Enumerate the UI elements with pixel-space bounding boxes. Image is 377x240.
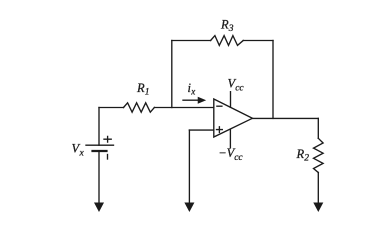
wire non-inverting input horizontal bbox=[189, 129, 213, 131]
battery polarity minus tick bbox=[107, 155, 109, 160]
wire top feedback right segment bbox=[243, 40, 273, 42]
svg-text:1: 1 bbox=[145, 88, 150, 98]
op-amp U1 bbox=[214, 99, 253, 137]
voltage source Vx battery bottom plate bbox=[93, 150, 107, 152]
wire top feedback left segment bbox=[172, 40, 211, 42]
label R3 bbox=[220, 18, 234, 35]
op-amp negative supply stub bbox=[229, 129, 231, 148]
wire from source corner to R1 bbox=[99, 107, 124, 109]
resistor R3 bbox=[211, 36, 244, 46]
wire non-inverting input vertical bbox=[188, 130, 190, 202]
svg-text:−V: −V bbox=[218, 146, 235, 160]
wire source bottom vertical bbox=[98, 151, 100, 203]
label Vcc (positive supply) bbox=[228, 77, 245, 94]
label R2 bbox=[296, 147, 310, 164]
svg-text:R: R bbox=[296, 147, 305, 161]
svg-text:x: x bbox=[190, 87, 195, 97]
ground arrow below non-inverting input bbox=[186, 203, 194, 210]
resistor R1 bbox=[124, 103, 155, 112]
resistor R2 bbox=[314, 138, 324, 172]
svg-text:3: 3 bbox=[228, 24, 234, 34]
label R1 bbox=[136, 81, 150, 98]
label -Vcc (negative supply) bbox=[218, 146, 243, 163]
svg-text:cc: cc bbox=[234, 153, 243, 163]
svg-text:2: 2 bbox=[304, 154, 309, 164]
svg-text:x: x bbox=[79, 149, 85, 159]
wire from R1 to op-amp inverting input bbox=[154, 107, 213, 109]
wire feedback right vertical bbox=[272, 41, 274, 119]
svg-text:R: R bbox=[136, 81, 145, 95]
wire R2 bottom vertical bbox=[317, 173, 319, 203]
op-amp non-inverting input plus sign bbox=[217, 127, 223, 133]
wire R2 top vertical bbox=[317, 118, 319, 138]
wire source top vertical bbox=[98, 108, 100, 146]
label i_x (current) bbox=[188, 81, 196, 97]
ground arrow below Vx bbox=[95, 203, 103, 210]
wire feedback left vertical bbox=[171, 41, 173, 108]
current arrow i_x bbox=[183, 98, 204, 103]
voltage source Vx battery top plate bbox=[86, 144, 114, 146]
op-amp inverting input minus sign bbox=[217, 105, 222, 107]
battery polarity plus sign bbox=[104, 136, 111, 142]
wire op-amp output bbox=[252, 117, 318, 119]
label Vx (source) bbox=[72, 142, 85, 159]
svg-text:R: R bbox=[220, 18, 229, 32]
ground arrow below R2 bbox=[314, 203, 322, 210]
svg-text:cc: cc bbox=[235, 84, 244, 94]
op-amp positive supply stub bbox=[230, 92, 232, 108]
